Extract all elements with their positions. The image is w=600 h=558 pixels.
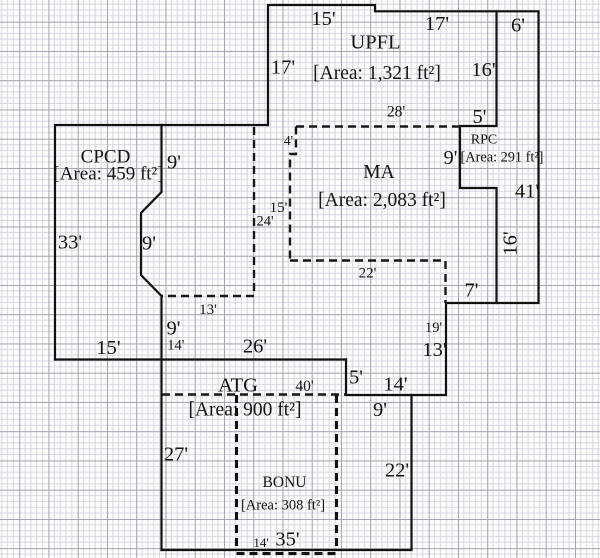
svg-text:9': 9': [167, 318, 181, 340]
svg-text:17': 17': [425, 13, 449, 35]
svg-text:[Area: 1,321 ft²]: [Area: 1,321 ft²]: [313, 63, 441, 84]
svg-text:35': 35': [275, 529, 299, 551]
svg-text:[Area: 900 ft²]: [Area: 900 ft²]: [188, 400, 301, 421]
svg-text:ATG: ATG: [218, 375, 258, 397]
svg-text:MA: MA: [363, 162, 394, 183]
svg-text:15': 15': [311, 8, 335, 30]
svg-text:9': 9': [167, 152, 181, 174]
svg-text:15': 15': [96, 337, 120, 359]
svg-text:BONU: BONU: [263, 474, 307, 491]
svg-text:13': 13': [422, 339, 446, 361]
svg-text:27': 27': [164, 444, 188, 466]
svg-text:13': 13': [199, 302, 217, 318]
svg-text:UPFL: UPFL: [350, 32, 400, 54]
svg-text:9': 9': [373, 399, 387, 421]
svg-text:22': 22': [359, 266, 377, 282]
svg-text:7': 7': [465, 280, 479, 302]
svg-text:4': 4': [284, 133, 293, 148]
svg-text:14': 14': [253, 535, 268, 550]
svg-text:5': 5': [349, 367, 363, 389]
svg-text:16': 16': [471, 59, 495, 81]
svg-text:9': 9': [142, 233, 156, 255]
svg-text:17': 17': [271, 57, 295, 79]
svg-text:[Area: 291 ft²]: [Area: 291 ft²]: [461, 150, 544, 166]
svg-text:26': 26': [243, 336, 267, 358]
svg-text:[Area: 308 ft²]: [Area: 308 ft²]: [241, 498, 325, 514]
svg-text:14': 14': [167, 338, 184, 354]
svg-text:5': 5': [473, 106, 487, 128]
svg-text:24': 24': [256, 214, 273, 230]
svg-text:14': 14': [383, 374, 407, 396]
svg-text:6': 6': [511, 15, 525, 37]
svg-text:33': 33': [58, 232, 82, 254]
svg-text:41': 41': [515, 181, 539, 203]
svg-text:[Area: 2,083 ft²]: [Area: 2,083 ft²]: [318, 190, 446, 211]
svg-text:40': 40': [295, 378, 314, 395]
svg-text:[Area: 459 ft²]: [Area: 459 ft²]: [53, 164, 163, 185]
svg-text:9': 9': [444, 147, 458, 169]
svg-text:RPC: RPC: [471, 133, 497, 148]
svg-text:22': 22': [385, 460, 409, 482]
svg-text:16': 16': [500, 231, 522, 255]
svg-text:19': 19': [425, 320, 442, 336]
svg-text:28': 28': [387, 104, 406, 121]
